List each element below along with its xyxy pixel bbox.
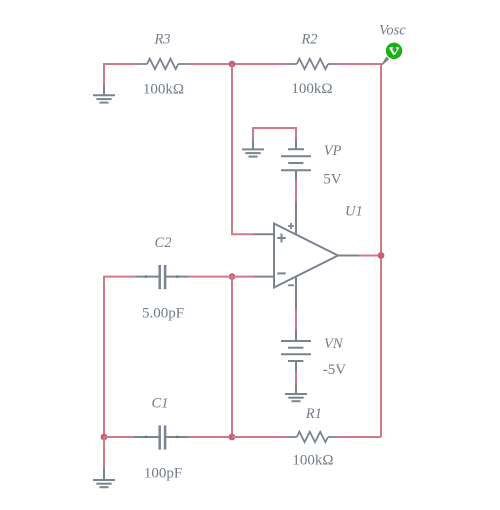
svg-text:R3: R3 (153, 32, 170, 48)
wire VN from op-amp V- pin (295, 309, 297, 330)
svg-text:C2: C2 (155, 235, 172, 251)
wire op-amp output to rail (359, 255, 381, 257)
resistor R2 (285, 59, 337, 69)
capacitor C2 (135, 265, 188, 289)
wire top-left ground stub (103, 63, 105, 85)
ground (VN) (285, 384, 307, 402)
probe Vosc letter (390, 48, 399, 55)
svg-text:100pF: 100pF (144, 466, 182, 482)
svg-text:5V: 5V (323, 172, 342, 188)
wire from top junction down to + input (232, 64, 253, 234)
resistor R3 (137, 59, 189, 69)
svg-text:5.00pF: 5.00pF (142, 306, 184, 322)
svg-text:Vosc: Vosc (379, 23, 406, 39)
wire VN to ground (295, 371, 297, 384)
wire top horizontal net (104, 63, 381, 65)
node junction dot (C1 left / ground) (101, 434, 108, 441)
wire right vertical rail (380, 63, 382, 437)
resistor R1 (285, 432, 337, 442)
svg-text:VP: VP (324, 143, 342, 159)
wire R1 right to right rail (338, 436, 381, 438)
node junction dot (inverting input net) (229, 273, 236, 280)
battery VP (281, 140, 311, 181)
wire C2 left to left rail (104, 277, 135, 437)
svg-text:R2: R2 (300, 32, 317, 48)
svg-text:100kΩ: 100kΩ (143, 82, 184, 98)
wire inverting input (232, 276, 253, 278)
svg-text:VN: VN (324, 336, 344, 352)
svg-text:100kΩ: 100kΩ (291, 81, 332, 97)
wire R1 left (232, 436, 285, 438)
node junction dot (top, net to noninverting input) (229, 61, 236, 68)
wire bottom-left ground stub (103, 437, 105, 468)
ground (bottom left) (93, 468, 115, 487)
wire vertical inverting net down (231, 277, 233, 437)
wire C2 right to junction (189, 276, 232, 278)
capacitor C1 (134, 425, 189, 449)
svg-text:U1: U1 (345, 204, 363, 220)
svg-text:100kΩ: 100kΩ (292, 453, 333, 469)
ground (top left) (93, 85, 115, 103)
battery VN (281, 330, 311, 371)
svg-text:C1: C1 (152, 395, 169, 411)
svg-text:-5V: -5V (323, 362, 346, 378)
probe Vosc needle (381, 57, 389, 66)
wire VP bridge to ground (253, 128, 296, 140)
pin lead - input (253, 276, 274, 278)
node junction dot (C1 right / R1 left) (229, 434, 236, 441)
svg-text:R1: R1 (305, 406, 322, 422)
pin lead + input (253, 233, 274, 235)
ground (VP) (242, 140, 264, 157)
probe Vosc circle (386, 43, 402, 59)
wire VP to op-amp V+ pin (295, 180, 297, 202)
op-amp U1 (274, 202, 359, 309)
node junction dot (output) (378, 252, 385, 259)
wire C1 left (104, 436, 134, 438)
wire C1 right to junction (189, 436, 232, 438)
